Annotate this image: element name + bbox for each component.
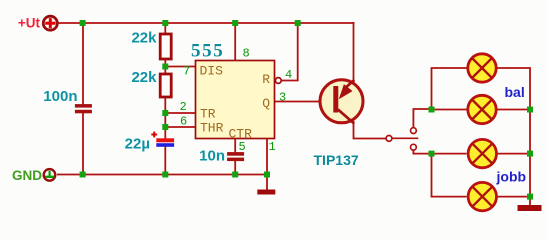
svg-text:TR: TR bbox=[200, 107, 216, 122]
resistor R1 22k bbox=[160, 34, 171, 59]
wire collector to switch pole bbox=[354, 121, 386, 139]
capacitor 10n bbox=[227, 152, 244, 161]
transistor Q1 TIP137 bbox=[320, 80, 363, 124]
op-amp U1 555 body bbox=[196, 61, 275, 139]
wire lamp2 left bbox=[432, 109, 467, 111]
wire rail to R1 bbox=[164, 23, 166, 34]
svg-text:7: 7 bbox=[183, 65, 190, 79]
node TR bbox=[162, 110, 168, 116]
svg-text:3: 3 bbox=[279, 91, 286, 105]
node gnd-pin1 bbox=[264, 172, 270, 178]
svg-text:R: R bbox=[262, 72, 270, 87]
node rail-100n bbox=[80, 20, 86, 26]
node jobb bus bbox=[429, 151, 435, 157]
switch throw down bbox=[411, 144, 417, 150]
wire top +V rail bbox=[58, 22, 355, 24]
svg-text:DIS: DIS bbox=[200, 64, 224, 79]
lamp L2 bbox=[468, 95, 496, 123]
svg-text:GND: GND bbox=[12, 168, 42, 183]
node gnd-100n bbox=[80, 172, 86, 178]
svg-text:6: 6 bbox=[180, 115, 187, 129]
svg-text:bal: bal bbox=[505, 84, 525, 100]
resistor R2 22k bbox=[160, 74, 171, 97]
node R1-R2-DIS bbox=[162, 64, 168, 70]
svg-text:5: 5 bbox=[239, 140, 246, 154]
wire 100n top bbox=[82, 23, 84, 105]
wire bottom GND rail bbox=[57, 174, 267, 176]
switch throw up bbox=[411, 128, 417, 134]
wire 10n to gnd rail bbox=[234, 161, 236, 176]
wire switch throw up to bal bus bbox=[413, 109, 431, 128]
svg-text:2: 2 bbox=[180, 100, 187, 114]
node gnd-10n bbox=[232, 172, 238, 178]
node right rail lamp3 bbox=[527, 151, 533, 157]
wire pin3 Q to base bbox=[275, 101, 334, 103]
wire lamp3 left bbox=[432, 153, 467, 155]
wire switch throw down to jobb bus bbox=[413, 150, 431, 153]
svg-text:THR: THR bbox=[200, 121, 224, 136]
svg-text:4: 4 bbox=[285, 68, 292, 82]
switch common pole bbox=[386, 136, 392, 142]
node right rail lamp2 bbox=[527, 107, 533, 113]
lamp L3 bbox=[468, 139, 496, 167]
node THR bbox=[162, 124, 168, 130]
capacitor C 100n bbox=[75, 104, 92, 113]
wire emitter drop from rail bbox=[353, 22, 355, 83]
ground bar right rail bbox=[518, 205, 542, 211]
node rail-pin8 bbox=[232, 20, 238, 26]
ground bar pin1 bbox=[257, 190, 275, 195]
wire 100n bottom bbox=[82, 113, 84, 176]
node right rail lamp4 bbox=[527, 194, 533, 200]
capacitor 22u electrolytic bbox=[151, 132, 174, 147]
node rail-pin4 bbox=[295, 20, 301, 26]
lamp L4 bbox=[468, 182, 496, 210]
svg-text:1: 1 bbox=[269, 140, 276, 154]
wire R2 bottom to 22u bbox=[164, 97, 166, 139]
svg-text:Q: Q bbox=[262, 96, 270, 111]
svg-text:10n: 10n bbox=[199, 148, 225, 165]
wire lamp3 right bbox=[498, 153, 531, 155]
switch lever bbox=[392, 137, 418, 139]
wire R1 to R2 bbox=[164, 59, 166, 74]
wire pin1 to ground bbox=[266, 138, 268, 190]
svg-text:8: 8 bbox=[243, 47, 250, 61]
svg-text:22k: 22k bbox=[131, 69, 157, 86]
svg-text:+Ut: +Ut bbox=[18, 15, 41, 30]
wire lamp4 right bbox=[498, 196, 531, 198]
svg-text:22µ: 22µ bbox=[125, 136, 150, 153]
svg-text:jobb: jobb bbox=[496, 168, 527, 184]
terminal +Ut bbox=[43, 16, 57, 30]
wire pin5 to 10n bbox=[234, 138, 236, 153]
svg-text:TIP137: TIP137 bbox=[314, 152, 359, 168]
wire node to pin7 DIS bbox=[165, 66, 196, 68]
svg-text:22k: 22k bbox=[131, 30, 157, 47]
node rail-R1 bbox=[162, 20, 168, 26]
lamp L1 bbox=[468, 54, 496, 82]
wire node to pin2 TR bbox=[165, 112, 196, 114]
terminal GND bbox=[44, 169, 56, 181]
wire bal left bus bbox=[432, 68, 467, 110]
wire lamp1 right to right rail bbox=[498, 68, 531, 206]
node gnd-22u bbox=[162, 172, 168, 178]
wire pin4 R to rail bbox=[281, 22, 297, 81]
wire 22u to gnd rail bbox=[164, 147, 166, 176]
pin 4 inversion bubble bbox=[275, 78, 281, 84]
wire pin8 to rail bbox=[234, 23, 236, 61]
svg-text:555: 555 bbox=[191, 41, 224, 62]
wire lamp2 right bbox=[498, 109, 531, 111]
wire node to pin6 THR bbox=[165, 126, 196, 128]
node bal bus bbox=[429, 107, 435, 113]
wire jobb left bus bbox=[432, 154, 467, 197]
svg-text:100n: 100n bbox=[43, 88, 77, 105]
